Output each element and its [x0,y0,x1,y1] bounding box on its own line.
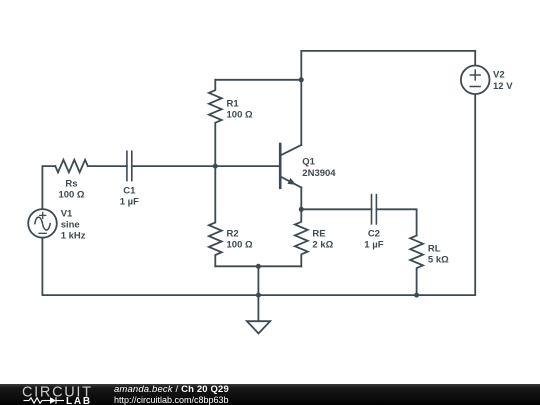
node ground-rail junction [256,293,261,298]
svg-text:1 µF: 1 µF [120,197,139,208]
svg-text:100 Ω: 100 Ω [227,240,253,251]
resistor R2 [209,166,222,266]
label Rs [58,178,84,200]
svg-text:C1: C1 [123,186,136,197]
footer bar [0,384,540,405]
capacitor C1 [127,151,132,180]
svg-text:RE: RE [312,229,325,240]
CircuitLab logo [0,384,110,405]
ground [247,321,270,333]
svg-text:R2: R2 [227,229,239,240]
label R2 [227,229,253,251]
transistor Q1 [280,144,301,209]
wire collector top rail to V2 [301,51,475,145]
capacitor C2 [372,195,377,224]
svg-text:Q1: Q1 [302,157,315,168]
resistor R1 [209,80,222,166]
svg-text:LAB: LAB [66,395,92,405]
node emitter junction [299,207,304,212]
svg-text:100 Ω: 100 Ω [58,190,84,201]
svg-text:RL: RL [428,243,441,254]
wire bottom rail [42,94,475,295]
wire V1 to Rs [42,166,55,209]
label C1 [120,186,139,208]
footer text [114,384,229,405]
label RL [428,243,449,265]
resistor Rs [55,160,88,173]
wire C2 to RL [376,209,416,235]
source V1 [28,209,57,238]
wire emitter to C2 [301,208,371,210]
svg-text:V1: V1 [61,208,73,219]
wire ground stem [257,266,259,321]
svg-text:100 Ω: 100 Ω [227,110,253,121]
wire R2 bottom to RE bottom [215,265,301,267]
svg-text:1 kHz: 1 kHz [61,231,86,242]
label Q1 [302,157,336,179]
resistor RL [410,236,423,296]
label V2 [493,70,513,92]
wire R1 top branch [215,79,301,81]
svg-text:12 V: 12 V [493,81,513,92]
svg-text:5 kΩ: 5 kΩ [428,254,449,265]
label C2 [364,229,383,251]
svg-text:R1: R1 [227,99,240,110]
svg-text:C2: C2 [368,229,380,240]
svg-text:2 kΩ: 2 kΩ [312,240,333,251]
resistor RE [295,209,308,266]
node RL-rail junction [414,293,419,298]
svg-text:Rs: Rs [65,178,77,189]
node base junction [213,164,218,169]
label RE [312,229,333,251]
svg-text:V2: V2 [493,70,505,81]
svg-text:sine: sine [61,220,80,231]
node collector junction [299,77,304,82]
wire Rs to C1 [88,165,127,167]
label R1 [227,99,253,121]
label V1 [61,208,86,241]
svg-text:2N3904: 2N3904 [302,168,336,179]
source V2 [461,66,490,95]
svg-text:1 µF: 1 µF [364,240,383,251]
wire C1 to base [132,165,280,167]
node ground junction [256,264,261,269]
